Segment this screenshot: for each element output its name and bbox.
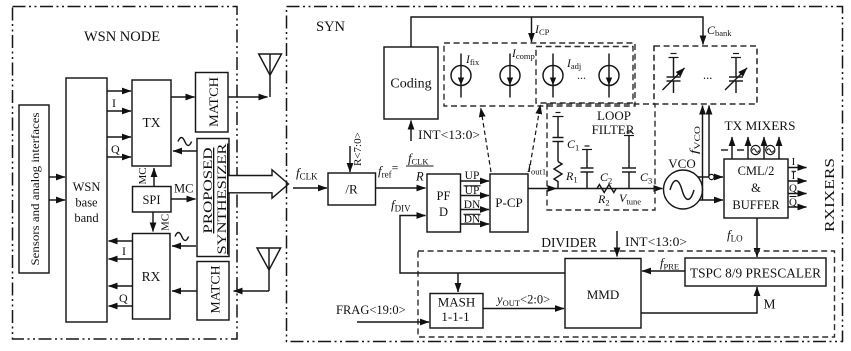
svg-text:MC: MC (174, 182, 193, 196)
svg-text:I: I (122, 244, 126, 258)
wire SPI to TX with MC label (137, 167, 154, 186)
svg-text:FRAG<19:0>: FRAG<19:0> (336, 303, 406, 317)
branch wire to MASH (457, 273, 459, 292)
block Coding (384, 47, 438, 119)
svg-text:base: base (75, 196, 98, 210)
block RX (133, 234, 171, 320)
svg-text:...: ... (577, 68, 586, 82)
svg-text:P-CP: P-CP (495, 195, 522, 210)
svg-text:SPI: SPI (142, 193, 160, 207)
svg-text:M: M (764, 297, 776, 312)
svg-text:MATCH: MATCH (208, 266, 223, 314)
svg-text:R<7:0>: R<7:0> (352, 132, 364, 166)
wires: baseband to TX with I/Q labels (107, 91, 131, 157)
varactor 2 (725, 54, 747, 94)
svg-text:SYN: SYN (316, 19, 346, 35)
svg-text:Sensors and analog interfaces: Sensors and analog interfaces (30, 112, 42, 266)
FRAG<19:0> input (336, 303, 429, 322)
ground symbol above C1 (553, 113, 564, 117)
svg-text:PF: PF (437, 189, 451, 203)
svg-text:INT<13:0>: INT<13:0> (625, 234, 687, 249)
svg-text:TX MIXERS: TX MIXERS (725, 119, 796, 133)
y_OUT<2:0> wire MASH to MMD (483, 293, 564, 309)
RXIXERS label (823, 158, 838, 232)
svg-text:R: R (415, 170, 424, 184)
f_ref = f_CLK/R label (378, 152, 434, 184)
dots between varactors (703, 68, 712, 82)
block SPI (133, 187, 172, 213)
svg-text:I: I (792, 156, 796, 168)
inner dashed box (I_adj group) (536, 47, 633, 104)
svg-text:LOOP: LOOP (597, 108, 631, 123)
svg-text:MATCH: MATCH (206, 77, 221, 127)
svg-text:BUFFER: BUFFER (732, 198, 780, 212)
capacitor C3 (622, 136, 652, 189)
block MATCH (bottom) (197, 262, 229, 321)
block MMD (565, 259, 641, 329)
dashed control arrow P-CP to current bank (481, 108, 491, 172)
current source I_adj (second) (599, 54, 619, 98)
f_VCO wires up to C_bank (687, 106, 710, 201)
svg-text:I: I (792, 170, 796, 182)
block CML/2 & BUFFER (724, 159, 788, 218)
block PFD (427, 174, 461, 232)
svg-text:WSN: WSN (73, 180, 101, 194)
svg-text:DN: DN (464, 214, 481, 226)
svg-text:I: I (112, 96, 116, 110)
block: Sensors and analog interfaces (19, 105, 49, 273)
svg-text:WSN NODE: WSN NODE (84, 29, 160, 45)
label LOOP FILTER (592, 108, 635, 137)
antenna (top) (259, 54, 282, 97)
current source I_adj (first) (543, 54, 586, 98)
f_DIV label (391, 197, 411, 214)
wires RX to baseband with I/Q labels (109, 241, 133, 306)
PFD to P-CP: UP wire (461, 170, 490, 182)
svg-text:DIVIDER: DIVIDER (541, 235, 597, 250)
wire MATCH to RX (172, 290, 197, 292)
varactor 1 (663, 54, 685, 94)
wire SPI to synthesizer with MC label (171, 182, 196, 200)
M feedback wire and label (641, 287, 776, 313)
svg-text:DN: DN (464, 199, 481, 211)
big open arrow from synthesizer to SYN (228, 170, 289, 198)
svg-text:TSPC 8/9 PRESCALER: TSPC 8/9 PRESCALER (690, 266, 821, 281)
svg-text:UP: UP (465, 170, 480, 182)
resistor R1 (554, 162, 578, 189)
PFD to P-CP: DN wire (461, 199, 490, 211)
WSN NODE enclosure (dash-dot frame) (13, 7, 238, 340)
svg-text:MC: MC (160, 214, 172, 231)
svg-text:RX: RX (142, 269, 161, 284)
wire synthesizer to TX with ~ symbol (173, 138, 197, 152)
label WSN NODE (84, 29, 160, 45)
f_PRE wire and label (642, 256, 685, 271)
PFD to P-CP: UPbar wire (461, 185, 490, 197)
V_tune label (619, 191, 641, 206)
block TSPC 8/9 PRESCALER (685, 258, 826, 286)
svg-text:FILTER: FILTER (592, 122, 635, 137)
top rail: Coding to I_CP and C_bank (411, 17, 703, 47)
svg-text:INT<13:0>: INT<13:0> (418, 127, 480, 142)
svg-text:...: ... (703, 68, 712, 82)
f_DIV return wire MMD to PFD (400, 216, 565, 274)
wire: sensors to baseband (2 arrows) (49, 177, 65, 200)
svg-text:MMD: MMD (587, 287, 620, 302)
svg-text:MC: MC (137, 167, 149, 184)
wire TX to MATCH (171, 96, 195, 98)
INT<13:0> input to Coding (411, 121, 480, 143)
loop filter dashed box (547, 104, 655, 210)
svg-text:SYNTHESIZER: SYNTHESIZER (214, 143, 229, 254)
block TX (132, 80, 171, 166)
current source I_fix (451, 54, 480, 98)
C_bank label (707, 23, 732, 38)
svg-text:Q: Q (789, 197, 797, 209)
block PROPOSED SYNTHESIZER (197, 139, 229, 257)
block P-CP (490, 174, 528, 232)
svg-text:1-1-1: 1-1-1 (441, 309, 469, 324)
ground symbol above C2 (582, 146, 592, 150)
f_CLK input label and wire (293, 165, 327, 188)
I_CP label (534, 22, 550, 37)
PFD to P-CP: DNbar wire (461, 214, 490, 226)
wire SPI to RX with MC label (153, 212, 172, 232)
svg-text:Coding: Coding (390, 77, 431, 92)
svg-text:MASH: MASH (438, 295, 476, 310)
svg-text:PROPOSED: PROPOSED (200, 148, 215, 234)
C_bank dashed box (654, 46, 757, 104)
block MATCH (top) (196, 73, 229, 133)
resistor R2 (597, 185, 616, 208)
VCO (664, 156, 703, 209)
label SYN (316, 19, 346, 35)
DIVIDER dashed box and label (418, 235, 835, 337)
block MASH 1-1-1 (430, 294, 483, 329)
dashed control arrow P-CP to I_adj box (529, 105, 540, 172)
svg-text:band: band (74, 211, 99, 225)
SYN enclosure (dash-dot frame) (287, 7, 843, 342)
svg-text:D: D (439, 205, 448, 219)
charge-pump current bank outer dashed box (444, 43, 635, 106)
CML outputs I / Ibar / Q / Qbar (788, 156, 807, 168)
svg-text:Q: Q (111, 142, 120, 156)
wire /R to PFD (376, 187, 426, 189)
svg-text:/R: /R (345, 182, 358, 197)
INT<13:0> input to MMD (617, 231, 687, 257)
capacitor C2 (581, 150, 613, 189)
block: WSN base band (66, 78, 107, 322)
svg-text:RXIXERS: RXIXERS (823, 158, 838, 232)
svg-text:Q: Q (789, 183, 797, 195)
I_out1 label (526, 161, 546, 177)
current source I_comp (500, 48, 535, 98)
wires VCO to CML (node circle) (698, 174, 723, 200)
antenna (bottom) with feed wire (234, 248, 281, 291)
svg-text:CML/2: CML/2 (738, 164, 775, 178)
svg-text:&: & (751, 181, 761, 195)
wire synthesizer to RX with ~ symbol (172, 233, 196, 247)
svg-text:VCO: VCO (668, 156, 695, 171)
R<7:0> control input (350, 132, 364, 172)
f_LO wire and label (727, 218, 757, 257)
wire MATCH to top antenna (228, 96, 268, 98)
TX MIXERS label (725, 119, 796, 133)
ground symbol above C3 (624, 132, 634, 136)
svg-text:UP: UP (465, 185, 480, 197)
svg-text:Q: Q (119, 291, 128, 305)
svg-text:TX: TX (143, 115, 161, 130)
capacitor C1 (553, 117, 580, 162)
block /R (328, 173, 376, 205)
TX mixer arrows with port symbols (721, 137, 779, 159)
wire P-CP to loop filter (528, 188, 663, 190)
